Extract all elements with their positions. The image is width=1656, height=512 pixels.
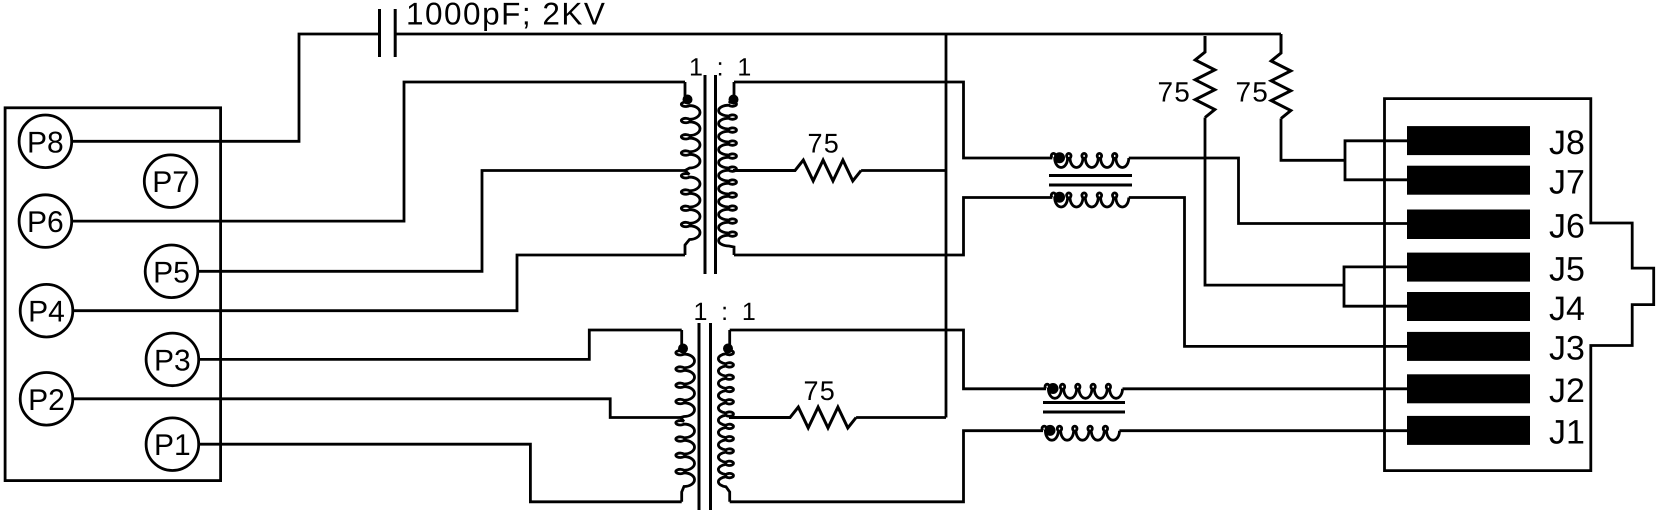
resistor R4 value label 75 (1236, 77, 1270, 108)
svg-text:1000pF; 2KV: 1000pF; 2KV (406, 0, 606, 32)
wire resistor R2 right to node bus bottom (856, 416, 946, 419)
svg-text:J6: J6 (1549, 207, 1585, 245)
contact pad J3 (1407, 330, 1585, 368)
resistor R1 75 across T1 secondary tap (733, 160, 861, 181)
pin P7 (144, 155, 197, 208)
connector P (left box outline) (5, 108, 221, 481)
wire choke L1 bottom to J3 (1129, 198, 1407, 347)
pin P8 (19, 115, 72, 168)
choke L2 bottom winding (1042, 426, 1120, 440)
contact pad J4 (1407, 290, 1585, 328)
pin P4 (20, 284, 73, 337)
wire capacitor C1 to resistor R4 top (bus along top) (396, 33, 1281, 36)
link box joining J5 and J4 (1344, 267, 1407, 306)
svg-text:J8: J8 (1549, 124, 1585, 162)
svg-text:P8: P8 (27, 126, 64, 159)
pin P6 (19, 195, 72, 248)
choke L1 bottom polarity dot (1054, 192, 1065, 203)
wire P2 to transformer T2 primary center tap (72, 399, 681, 418)
resistor R3 75 (left vertical) (1195, 36, 1215, 118)
pin P5 (145, 245, 198, 298)
svg-text:J2: J2 (1549, 372, 1585, 410)
wire choke L2 bottom to J1 (1119, 429, 1407, 432)
wire T1 secondary bottom to choke L1 bottom (734, 198, 1052, 256)
transformer T1 secondary polarity dot (729, 95, 739, 105)
wire T2 secondary bottom to choke L2 bottom (730, 431, 1043, 502)
svg-text:P6: P6 (27, 206, 64, 239)
transformer T1 primary polarity dot (683, 95, 693, 105)
pin P2 (20, 373, 73, 426)
transformer T2 secondary polarity dot (723, 344, 733, 354)
svg-text:P3: P3 (154, 344, 191, 377)
svg-text:75: 75 (1158, 77, 1192, 108)
transformer T2 ratio label 1 : 1 (694, 298, 760, 326)
svg-text:P5: P5 (153, 256, 190, 289)
wire choke L1 top to J6 (1129, 158, 1407, 224)
svg-text:J3: J3 (1549, 330, 1585, 368)
resistor R2 75 across T2 secondary tap (729, 407, 856, 428)
svg-text:75: 75 (1236, 77, 1270, 108)
svg-text:P7: P7 (152, 166, 189, 199)
wire T1 secondary top to choke L1 top (734, 82, 1052, 158)
choke L1 core (1049, 176, 1132, 186)
connector J outline (RJ45 jack) (1385, 99, 1654, 471)
link box joining J8 and J7 (1345, 141, 1407, 180)
transformer T1 ratio label 1 : 1 (689, 54, 755, 82)
svg-text:75: 75 (808, 128, 840, 158)
svg-text:1 : 1: 1 : 1 (689, 54, 755, 82)
choke L2 top polarity dot (1048, 383, 1059, 394)
contact pad J2 (1407, 372, 1585, 410)
wire resistor R1 right to node bus (861, 169, 946, 172)
wire P4 to transformer T1 primary bottom (72, 255, 685, 311)
transformer T2 primary winding (676, 330, 695, 502)
contact pad J8 (1407, 124, 1585, 162)
node bus vertical (capacitor return) (945, 34, 948, 418)
svg-text:P4: P4 (28, 296, 65, 329)
wire P8 to capacitor C1 (72, 34, 380, 141)
resistor R1 value label 75 (808, 128, 840, 158)
resistor R3 value label 75 (1158, 77, 1192, 108)
choke L2 core (1043, 403, 1125, 413)
capacitor C1 value label (406, 0, 606, 32)
wire P3 to transformer T2 primary top (198, 330, 682, 359)
choke L1 top polarity dot (1054, 152, 1065, 163)
transformer T2 secondary winding (718, 330, 733, 502)
svg-text:J5: J5 (1549, 250, 1585, 288)
transformer T1 core (705, 75, 716, 274)
wire P5 to transformer T1 primary center tap (198, 171, 685, 272)
resistor R2 value label 75 (804, 376, 836, 406)
wire P1 to transformer T2 primary bottom (198, 444, 682, 502)
contact pad J5 (1407, 250, 1585, 288)
svg-text:75: 75 (804, 376, 836, 406)
svg-text:J7: J7 (1549, 164, 1585, 202)
wire P6 to transformer T1 primary top (72, 82, 685, 221)
choke L1 top winding (1051, 153, 1129, 167)
choke L2 top winding (1045, 384, 1123, 398)
contact pad J7 (1407, 164, 1585, 202)
transformer T2 primary polarity dot (678, 344, 688, 354)
wire T2 secondary top to choke L2 top (730, 330, 1046, 389)
svg-text:J4: J4 (1549, 290, 1585, 328)
transformer T1 primary winding (681, 82, 700, 255)
pin P3 (146, 333, 199, 386)
choke L2 bottom polarity dot (1045, 425, 1056, 436)
svg-text:J1: J1 (1549, 414, 1585, 452)
transformer T1 secondary winding (719, 82, 737, 255)
contact pad J1 (1407, 414, 1585, 452)
pin P1 (146, 418, 199, 471)
resistor R4 75 (right vertical) (1271, 34, 1291, 119)
transformer T2 core (699, 323, 711, 510)
svg-text:1 : 1: 1 : 1 (694, 298, 760, 326)
wire choke L2 top to J2 (1123, 387, 1408, 390)
wire resistor R3 bottom to J5/J4 link (1205, 118, 1345, 286)
svg-text:P1: P1 (154, 429, 191, 462)
capacitor C1 plates (380, 9, 396, 57)
choke L1 bottom winding (1051, 193, 1129, 207)
svg-text:P2: P2 (28, 384, 65, 417)
wire resistor R4 bottom to J8/J7 link (1281, 119, 1345, 161)
contact pad J6 (1407, 207, 1585, 245)
